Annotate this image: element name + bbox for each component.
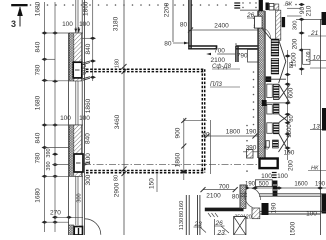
dim 390 bbox=[243, 151, 259, 153]
stair unit B white box bbox=[267, 105, 273, 115]
svg-text:1860: 1860 bbox=[83, 1, 90, 16]
svg-text:180: 180 bbox=[115, 59, 121, 68]
270 arrow at wall face bbox=[66, 216, 72, 219]
right wall inner line bbox=[264, 11, 266, 158]
bottom wall lines right bbox=[260, 211, 326, 214]
svg-text:1500: 1500 bbox=[290, 221, 297, 235]
left dim chain line B bbox=[54, 2, 56, 232]
svg-text:300: 300 bbox=[293, 21, 299, 31]
stair unit C white box bbox=[267, 123, 273, 134]
top right: room corner dots bbox=[242, 2, 256, 8]
svg-text:270: 270 bbox=[50, 210, 61, 217]
svg-text:2100: 2100 bbox=[206, 192, 221, 199]
svg-text:840: 840 bbox=[85, 43, 92, 54]
svg-text:150: 150 bbox=[149, 178, 156, 189]
svg-text:100: 100 bbox=[284, 150, 295, 157]
left chain A arrows bbox=[42, 31, 48, 223]
centerline dash-dot bbox=[84, 163, 258, 165]
right chain texts bbox=[290, 21, 298, 67]
hatched pier above elevator box bbox=[247, 150, 254, 159]
hatch ticks under wall bbox=[208, 213, 218, 217]
main wall horizontal y47 bbox=[188, 45, 217, 47]
right wall hatched strip bbox=[259, 11, 265, 158]
section marker 3: arrow stem bbox=[19, 7, 21, 27]
window dim chain line x92.7 bbox=[92, 0, 94, 81]
svg-text:2900: 2900 bbox=[114, 182, 121, 197]
left wall pier 3 hatch bbox=[69, 225, 74, 235]
svg-text:160: 160 bbox=[179, 201, 185, 211]
left chain extension lines bbox=[45, 33, 84, 222]
top right: door jamb box bbox=[255, 16, 263, 28]
top right: black wall block bbox=[259, 0, 263, 11]
stack symbol between bbox=[272, 173, 277, 178]
stair diag B bbox=[279, 115, 290, 123]
svg-text:190: 190 bbox=[245, 182, 256, 188]
svg-text:1680: 1680 bbox=[35, 1, 42, 16]
svg-text:3460: 3460 bbox=[114, 114, 121, 129]
top right: upper corridor wall hatch bbox=[276, 10, 281, 40]
wall jamb right of door 700 bbox=[236, 45, 259, 47]
bottom hatched pier bbox=[252, 208, 260, 219]
landing bar 2 bbox=[262, 100, 267, 106]
svg-text:780: 780 bbox=[35, 64, 42, 75]
left wall outer face line bbox=[68, 33, 70, 235]
left wall pier 1 hatch bbox=[69, 33, 81, 81]
svg-text:500: 500 bbox=[259, 181, 270, 187]
svg-text:840: 840 bbox=[85, 133, 92, 144]
top right: black block beside bbox=[282, 17, 285, 27]
svg-text:1600: 1600 bbox=[294, 182, 308, 188]
window W1 bbox=[73, 62, 82, 78]
svg-text:100: 100 bbox=[79, 21, 90, 28]
bottom door arc bbox=[252, 189, 261, 201]
svg-text:1500: 1500 bbox=[290, 52, 297, 67]
600 tick marks W1 bbox=[83, 61, 90, 166]
top dotted grid row bbox=[21, 4, 297, 6]
duct dashed horizontal top bbox=[86, 69, 205, 71]
left chain texts bbox=[35, 1, 53, 202]
svg-text:840: 840 bbox=[35, 41, 42, 52]
svg-text:390: 390 bbox=[46, 161, 52, 170]
bottom dim 700/2100/80 bbox=[203, 189, 235, 191]
top right: door threshold bars bbox=[234, 3, 240, 8]
svg-text:300: 300 bbox=[85, 174, 92, 185]
svg-text:190: 190 bbox=[246, 129, 257, 136]
stair dim line x283.9 bbox=[287, 50, 289, 160]
window W3 bbox=[74, 227, 82, 236]
svg-text:3180: 3180 bbox=[113, 16, 120, 31]
svg-text:80: 80 bbox=[164, 41, 172, 48]
svg-text:100: 100 bbox=[261, 173, 272, 180]
svg-text:1130: 1130 bbox=[179, 218, 185, 230]
right chain line x301.5 bbox=[301, 19, 303, 75]
svg-text:80: 80 bbox=[114, 175, 120, 181]
dim line 3180/3460/2900 bbox=[123, 0, 125, 235]
svg-text:1860: 1860 bbox=[85, 98, 92, 113]
100/100 labels mid bbox=[60, 115, 90, 122]
top right: small box bbox=[269, 3, 274, 10]
niche rect below H2 bbox=[248, 50, 259, 63]
stair unit C tread block bbox=[273, 123, 279, 134]
svg-text:200: 200 bbox=[288, 160, 295, 171]
vertical dotted line x247 bbox=[235, 43, 254, 219]
svg-text:780: 780 bbox=[35, 152, 42, 163]
svg-text:80: 80 bbox=[289, 115, 295, 121]
svg-text:2200: 2200 bbox=[164, 2, 171, 17]
bottom thick wall bbox=[205, 208, 244, 212]
stair diag A bbox=[279, 85, 290, 103]
right edge black bar bbox=[322, 108, 326, 131]
dim 700 door bbox=[217, 53, 236, 55]
top right: room floor line bbox=[240, 9, 259, 11]
svg-text:390: 390 bbox=[46, 148, 52, 157]
right wall face line bbox=[257, 11, 259, 158]
stair diag C bbox=[279, 134, 290, 153]
svg-text:80: 80 bbox=[180, 22, 188, 29]
top right: black piece 2 bbox=[266, 3, 269, 11]
bottom vertical wall x242 bbox=[240, 185, 246, 208]
duct dashed vertical bbox=[202, 69, 204, 172]
door swing arc bottom-left bbox=[85, 219, 101, 235]
stair unit D white box bbox=[266, 141, 269, 148]
svg-text:3: 3 bbox=[11, 19, 16, 29]
window W2 bbox=[74, 154, 83, 172]
bottom dim row 190/500/1600/190 bbox=[240, 187, 326, 189]
svg-text:1500: 1500 bbox=[287, 124, 293, 138]
dim 270 line bbox=[55, 216, 83, 218]
stair unit A white box bbox=[267, 84, 273, 97]
svg-text:790: 790 bbox=[237, 52, 248, 59]
svg-text:100: 100 bbox=[306, 211, 317, 218]
elevator shaft box bbox=[260, 159, 278, 169]
stair landing bar bbox=[266, 76, 272, 82]
top right: hatch piece bbox=[274, 4, 279, 10]
svg-text:900: 900 bbox=[175, 127, 182, 138]
room split line 2 bbox=[214, 219, 216, 235]
stair zigzag 1 bbox=[279, 40, 286, 83]
svg-text:1680: 1680 bbox=[35, 95, 42, 110]
landing line bbox=[265, 78, 286, 80]
stair dim texts bbox=[287, 62, 295, 138]
section marker 3: arrowhead bbox=[17, 6, 23, 16]
bottom: left vertical wall lines bbox=[186, 195, 189, 235]
dim extension x210.4 bbox=[209, 120, 211, 174]
svg-text:23: 23 bbox=[217, 230, 226, 236]
landing line 2 bbox=[265, 102, 285, 104]
bottom black box bbox=[262, 203, 269, 215]
room split line below wall bbox=[197, 195, 199, 235]
svg-text:100: 100 bbox=[277, 173, 288, 180]
left wall glazing lines bbox=[76, 0, 78, 225]
right stair flight 2 bbox=[271, 59, 279, 75]
100/100 labels top bbox=[62, 21, 90, 28]
duct dashed horizontal bottom bbox=[86, 171, 205, 173]
bottom left texts 160/80/1130 bbox=[179, 201, 185, 231]
svg-text:100: 100 bbox=[62, 21, 73, 28]
left wall inner face lines bbox=[82, 0, 84, 235]
right-of-wall dim texts bbox=[77, 1, 93, 202]
svg-text:840: 840 bbox=[35, 132, 42, 143]
dim 2400 line bbox=[192, 29, 261, 31]
dim 80 at wall top bbox=[173, 42, 189, 44]
ticks on 124 line bbox=[122, 64, 127, 176]
wall going down x236.5 bbox=[235, 46, 237, 62]
svg-text:.ВК: .ВК bbox=[284, 2, 293, 8]
svg-text:100: 100 bbox=[60, 115, 71, 122]
bottom corridor wall lines bbox=[240, 194, 326, 196]
svg-text:1680: 1680 bbox=[35, 188, 42, 203]
top right: door leaf bbox=[262, 28, 271, 39]
mid dim chain x183.5 bbox=[183, 118, 185, 180]
right edge line under 90/210 bbox=[310, 67, 326, 69]
svg-text:1860: 1860 bbox=[175, 152, 182, 167]
stair unit D tread block bbox=[273, 140, 279, 148]
right stair flight 1 bbox=[271, 39, 279, 56]
stair unit A tread block bbox=[273, 84, 279, 99]
svg-text:300: 300 bbox=[77, 193, 83, 202]
stair unit B tread block bbox=[273, 104, 279, 114]
svg-text:200: 200 bbox=[292, 38, 299, 49]
left wall pier 2 hatch bbox=[69, 125, 81, 176]
top right: door arc bbox=[262, 28, 271, 40]
section marker 3: bar bbox=[11, 4, 27, 6]
main wall vertical x190 bbox=[188, 0, 190, 49]
left dim chain line A bbox=[44, 2, 46, 232]
svg-text:100: 100 bbox=[79, 115, 90, 122]
boxed label L-09 bbox=[303, 49, 310, 64]
svg-text:700: 700 bbox=[219, 184, 230, 191]
svg-text:190: 190 bbox=[315, 182, 326, 188]
right edge black bar 2 bbox=[322, 194, 326, 214]
right edge wall line bbox=[320, 19, 322, 235]
svg-text:80: 80 bbox=[232, 194, 240, 201]
dim line 2200 bbox=[172, 0, 174, 42]
svg-text:2400: 2400 bbox=[214, 23, 229, 30]
shaft wall black bars bbox=[273, 181, 278, 197]
100/100 arrows top bbox=[76, 27, 79, 32]
svg-text:210: 210 bbox=[306, 5, 313, 16]
svg-text:80: 80 bbox=[179, 211, 185, 217]
svg-text:2100: 2100 bbox=[211, 57, 226, 64]
left chain B arrows bbox=[52, 31, 58, 223]
svg-text:190: 190 bbox=[271, 202, 278, 213]
svg-text:600: 600 bbox=[288, 87, 295, 98]
svg-text:1800: 1800 bbox=[226, 129, 241, 136]
svg-text:700: 700 bbox=[214, 47, 225, 54]
dim 150 vertical bbox=[156, 174, 158, 192]
shaft box with X bbox=[234, 217, 246, 236]
dim 1800/190 bbox=[207, 135, 258, 137]
